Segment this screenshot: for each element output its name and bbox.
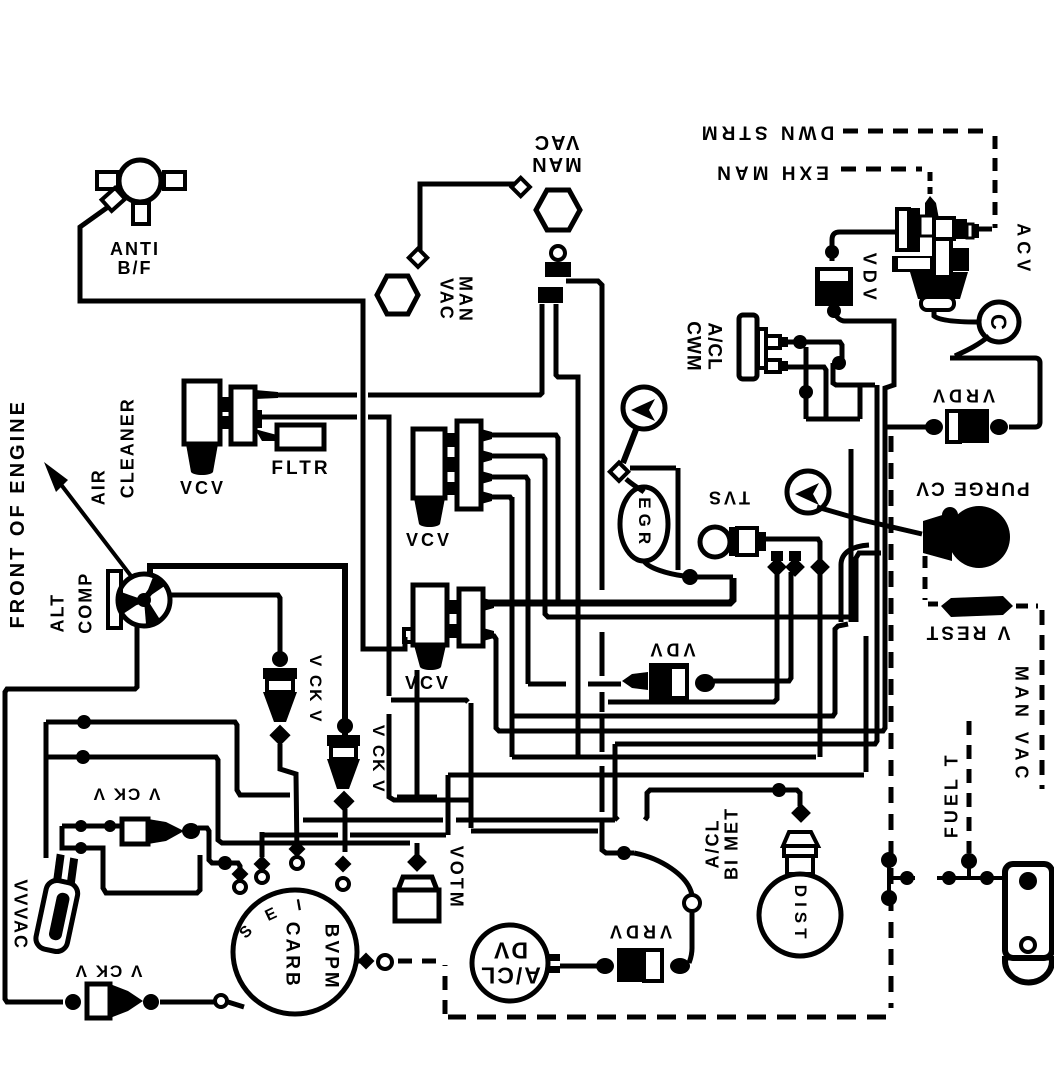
svg-text:C: C <box>986 314 1011 330</box>
